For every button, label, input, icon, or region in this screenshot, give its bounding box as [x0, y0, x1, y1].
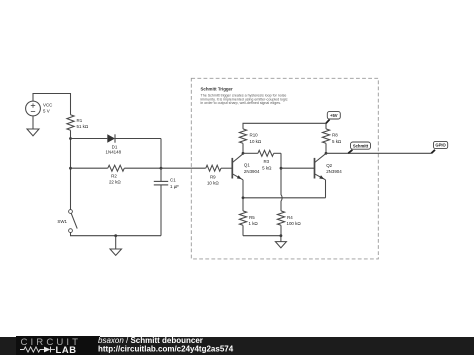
- node junction R2/C1: [160, 167, 163, 170]
- wire output to GPIO: [326, 152, 431, 154]
- wire VCC bottom stub: [32, 116, 34, 129]
- footer bar: [0, 337, 474, 355]
- voltage source VCC 5V: [26, 101, 54, 116]
- wire C1 node to R9: [161, 167, 206, 169]
- resistor R2 22k: [71, 165, 162, 184]
- node junction Q2 base divider: [280, 167, 283, 170]
- wire ground stub: [115, 236, 117, 249]
- wire box ground stub: [280, 236, 282, 242]
- wire Q2 emitter down: [325, 180, 327, 198]
- ground (below VCC): [27, 129, 39, 136]
- resistor R8 5k: [322, 129, 342, 153]
- switch SW1: [57, 210, 77, 233]
- node junction bottom ground: [114, 234, 117, 237]
- node junction Q1 emitter/R5: [242, 196, 245, 199]
- capacitor C1 1uF: [154, 168, 179, 236]
- transistor Q1 2N3904: [232, 154, 260, 180]
- wire Q1 emitter down: [242, 180, 244, 198]
- wire D1 down to R2 node: [160, 139, 162, 169]
- diode D1 1N4148: [71, 134, 162, 154]
- wire emitter coupling: [243, 197, 326, 199]
- ground (schmitt box): [275, 242, 286, 248]
- wire R3 to R4 (with hop): [281, 153, 282, 211]
- node junction Q2 collector: [325, 152, 328, 155]
- schmitt trigger dashed box: [191, 78, 378, 259]
- node junction R2 left: [69, 167, 72, 170]
- svg-text:LAB: LAB: [56, 344, 77, 355]
- wire VCC top to R1 top: [33, 94, 71, 115]
- logo diode: [44, 347, 51, 353]
- svg-text:http://circuitlab.com/c24y4tg2: http://circuitlab.com/c24y4tg2as574: [98, 344, 234, 353]
- box description text: [201, 94, 288, 105]
- node junction R1/D1: [69, 137, 72, 140]
- resistor R5 1k: [239, 198, 258, 236]
- resistor R4 100k: [277, 211, 301, 236]
- resistor R1 51k: [67, 115, 89, 131]
- net flag GPIO: [431, 141, 447, 153]
- logo resistor squiggle: [20, 347, 44, 352]
- transistor Q2 2N3904: [315, 154, 343, 180]
- resistor R9 10k: [206, 165, 233, 186]
- resistor R3 5k: [243, 150, 281, 170]
- box title: [201, 86, 233, 91]
- ground (main): [110, 249, 122, 255]
- net flag Schmitt: [348, 142, 370, 153]
- wire SW1 to bottom rail: [71, 233, 162, 236]
- wire top rail +5V: [243, 123, 326, 129]
- node junction Q1 collector: [242, 152, 245, 155]
- net flag +5V: [326, 112, 340, 124]
- wire R1 bottom to SW1: [70, 130, 72, 209]
- resistor R10 10k: [239, 129, 261, 153]
- footer logo box: [16, 336, 100, 355]
- node junction R4 bottom: [280, 234, 283, 237]
- wire to Q2 base: [281, 167, 315, 169]
- wire box bottom rail: [243, 235, 281, 237]
